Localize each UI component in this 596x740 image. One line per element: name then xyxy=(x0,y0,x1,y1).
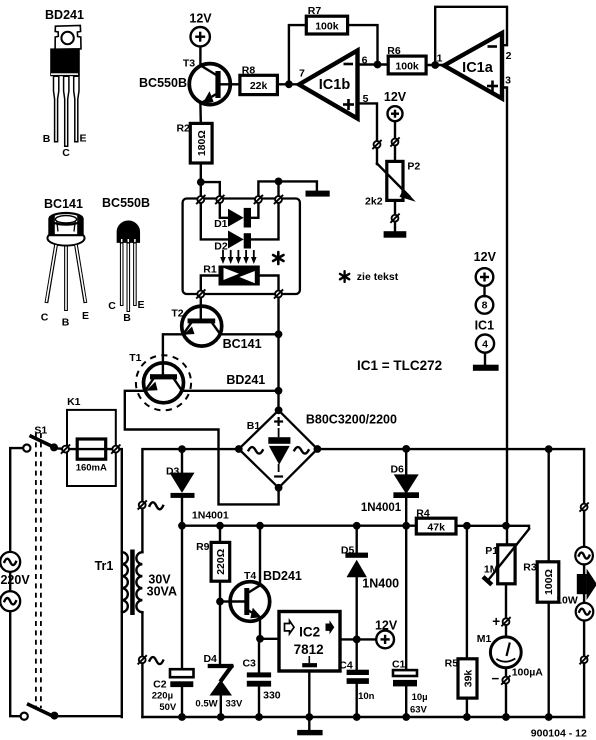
svg-text:C: C xyxy=(108,300,116,312)
svg-text:R3: R3 xyxy=(523,562,537,574)
svg-text:P2: P2 xyxy=(407,161,420,173)
svg-text:+: + xyxy=(492,614,500,629)
svg-text:C2: C2 xyxy=(153,679,167,691)
svg-text:5: 5 xyxy=(363,93,369,105)
svg-text:E: E xyxy=(79,133,86,145)
svg-text:R5: R5 xyxy=(445,658,459,670)
svg-text:B80C3200/2200: B80C3200/2200 xyxy=(306,413,397,427)
svg-text:D1: D1 xyxy=(214,218,228,230)
svg-text:R6: R6 xyxy=(387,45,401,57)
svg-text:E: E xyxy=(137,299,144,311)
svg-text:C4: C4 xyxy=(339,660,353,672)
svg-text:39k: 39k xyxy=(462,670,474,688)
svg-text:33V: 33V xyxy=(225,699,243,710)
svg-text:R4: R4 xyxy=(416,508,430,520)
svg-text:2: 2 xyxy=(506,50,512,62)
svg-text:B: B xyxy=(123,312,131,324)
svg-text:T4: T4 xyxy=(244,570,256,582)
svg-text:10n: 10n xyxy=(358,691,375,702)
svg-text:C: C xyxy=(41,312,49,324)
svg-text:B: B xyxy=(43,133,51,145)
svg-text:22k: 22k xyxy=(250,80,268,92)
svg-text:2k2: 2k2 xyxy=(365,196,383,208)
svg-text:B1: B1 xyxy=(247,420,261,432)
svg-text:S1: S1 xyxy=(34,425,47,437)
svg-text:IC1b: IC1b xyxy=(319,77,351,93)
svg-text:12V: 12V xyxy=(189,12,212,26)
svg-text:BD241: BD241 xyxy=(226,373,265,387)
svg-text:50V: 50V xyxy=(159,702,177,713)
svg-text:330: 330 xyxy=(263,690,281,702)
svg-text:T1: T1 xyxy=(129,352,141,364)
svg-text:1M: 1M xyxy=(484,564,499,576)
svg-text:D6: D6 xyxy=(390,464,404,476)
svg-text:BC550B: BC550B xyxy=(102,196,150,210)
svg-text:IC1a: IC1a xyxy=(462,60,494,76)
svg-text:12V: 12V xyxy=(474,250,497,264)
svg-text:0.5W: 0.5W xyxy=(195,699,217,710)
svg-text:T3: T3 xyxy=(183,58,195,70)
svg-text:IC2: IC2 xyxy=(299,625,320,640)
svg-text:−: − xyxy=(491,671,499,686)
svg-text:3: 3 xyxy=(505,75,511,87)
svg-text:100k: 100k xyxy=(395,60,419,72)
svg-text:220Ω: 220Ω xyxy=(215,549,227,575)
svg-text:12V: 12V xyxy=(375,619,398,633)
svg-text:P1: P1 xyxy=(485,545,498,557)
svg-text:IC1: IC1 xyxy=(475,319,495,333)
svg-text:8: 8 xyxy=(482,300,488,312)
svg-text:100Ω: 100Ω xyxy=(543,569,555,595)
svg-text:4: 4 xyxy=(482,338,488,350)
svg-text:1N4001: 1N4001 xyxy=(192,510,229,522)
svg-text:D3: D3 xyxy=(166,466,180,478)
svg-text:BC550B: BC550B xyxy=(139,76,187,90)
svg-text:zie tekst: zie tekst xyxy=(357,271,399,283)
svg-text:C1: C1 xyxy=(392,659,406,671)
svg-text:BC141: BC141 xyxy=(44,197,83,211)
svg-text:R2: R2 xyxy=(176,123,190,135)
svg-text:30VA: 30VA xyxy=(147,585,177,599)
svg-text:10µ: 10µ xyxy=(412,692,428,703)
svg-text:100µA: 100µA xyxy=(512,667,544,679)
svg-text:BD241: BD241 xyxy=(45,8,84,22)
svg-text:1N400: 1N400 xyxy=(362,577,399,591)
svg-text:7812: 7812 xyxy=(294,642,324,657)
svg-text:BC141: BC141 xyxy=(223,337,262,351)
svg-text:1N4001: 1N4001 xyxy=(361,502,402,514)
svg-text:180Ω: 180Ω xyxy=(196,130,208,156)
svg-text:1: 1 xyxy=(437,53,443,65)
svg-text:6: 6 xyxy=(362,55,368,67)
svg-text:160mA: 160mA xyxy=(76,463,107,474)
svg-text:BD241: BD241 xyxy=(263,569,302,583)
svg-text:7: 7 xyxy=(299,68,305,80)
svg-text:R1: R1 xyxy=(203,264,217,276)
svg-text:63V: 63V xyxy=(410,705,428,716)
svg-text:220µ: 220µ xyxy=(152,691,173,702)
svg-text:K1: K1 xyxy=(67,396,81,408)
svg-text:D5: D5 xyxy=(341,545,355,557)
svg-text:R9: R9 xyxy=(196,541,210,553)
svg-text:IC1 = TLC272: IC1 = TLC272 xyxy=(357,358,442,373)
svg-text:47k: 47k xyxy=(427,522,445,534)
svg-text:Tr1: Tr1 xyxy=(95,559,114,573)
svg-text:E: E xyxy=(82,310,89,322)
svg-text:10W: 10W xyxy=(556,595,578,607)
svg-text:C3: C3 xyxy=(242,658,256,670)
svg-text:100k: 100k xyxy=(315,21,339,33)
svg-text:D4: D4 xyxy=(203,653,217,665)
svg-text:R7: R7 xyxy=(308,5,322,17)
svg-text:900104 - 12: 900104 - 12 xyxy=(531,728,587,740)
svg-text:B: B xyxy=(62,317,70,329)
svg-text:C: C xyxy=(62,147,70,159)
svg-text:M1: M1 xyxy=(477,633,492,645)
svg-text:T2: T2 xyxy=(171,308,183,320)
svg-text:220V: 220V xyxy=(0,573,30,587)
svg-text:R8: R8 xyxy=(242,65,256,77)
svg-text:12V: 12V xyxy=(384,90,407,104)
svg-text:D2: D2 xyxy=(214,241,228,253)
